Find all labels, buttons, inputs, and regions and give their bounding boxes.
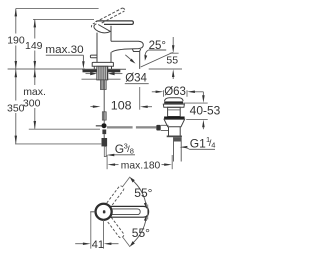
rod end cap [156,125,160,131]
tailpipe thread hatch [174,137,182,141]
hose braided segment [102,112,106,120]
extension line lever top (149) [33,18,94,20]
arrow down 149 at deck [34,61,37,69]
pivot dashed arc [91,23,95,28]
svg-text:Ø34: Ø34 [125,73,147,85]
svg-text:Ø63: Ø63 [164,86,186,98]
pop-up rod pivot ball [102,123,107,128]
svg-text:8: 8 [130,146,134,155]
tailpipe [174,137,182,161]
dim 55 upper arrow [172,37,174,47]
svg-text:300: 300 [23,97,41,109]
lever pivot skirt right side [98,25,110,32]
arrow down 350 bottom [15,136,17,144]
plan lever solid [110,206,148,217]
svg-text:55°: 55° [132,226,150,240]
dim 41 ticks [90,212,92,249]
aerator [132,49,140,52]
lever pivot skirt bottom [94,24,111,33]
svg-text:55: 55 [166,54,178,66]
arrow up 350 at deck [15,69,17,77]
ext line spout outlet right [170,52,179,54]
swing arc top [132,180,147,207]
stream vertical line [139,52,141,69]
shank threads below deck [100,80,106,90]
ext line basin floor [183,102,208,104]
rod lever arm left of ball [96,125,102,127]
dim 41 left arrow [75,243,84,245]
arrow up max300 at deck [34,69,37,77]
dim 108 right arrow [143,106,152,108]
hose nipple [104,146,106,156]
dim 108 right tick [139,87,141,110]
ext line nut bottom [186,118,208,120]
shank threads above deck [97,66,108,80]
dim 40-53 upper arrow [202,92,204,97]
plan lever dashed down 55 [107,217,125,238]
faucet base plate [92,62,113,66]
radial extension top [123,177,130,186]
drain flange [163,104,184,107]
drain plug dark band [164,101,183,103]
dim 40-53 lower arrow [202,126,204,129]
dim Ø63 ticks [163,90,165,97]
hose lower line [103,134,105,138]
dimension line 149/max300 vertical [34,19,36,128]
svg-text:4: 4 [211,140,215,149]
deck section dark band right [108,70,121,73]
svg-text:41: 41 [92,239,104,251]
svg-text:G1: G1 [190,137,206,151]
arrow up 190 top [15,8,17,16]
plan center pin [103,210,106,213]
drain body [169,127,181,136]
stream left arrow [125,55,131,60]
dim Ø63 right arrow [193,91,203,93]
radial extension bottom [123,238,130,247]
supply hose line [103,89,105,112]
lever tip tick [147,205,149,220]
deck extension line left [8,68,85,70]
dim 41 right arrow [110,243,119,245]
svg-text:max.180: max.180 [121,160,161,172]
drain neck [168,107,181,116]
hose thin line [103,120,105,123]
drain plug dome [165,98,184,101]
deck section dark band left [83,70,97,73]
extension line top (raised lever height 190) [16,7,99,9]
dim 55 lower arrow [172,76,174,79]
deck extension line right [149,68,182,70]
drain neck seam line [168,109,181,111]
plan circle (cartridge) [96,204,112,220]
spout [111,41,143,52]
faucet body [97,26,111,63]
arrow down 190 at deck [15,61,17,69]
deck bottom line [82,78,121,80]
pop-up pull knob on body back [90,55,97,58]
svg-text:190: 190 [7,34,25,46]
plan lever slot [112,209,140,215]
extension line hose end (350 bottom) [15,143,101,145]
stream diagonal 25deg [141,52,173,67]
lever handle solid [96,21,134,25]
pop-up rod segments [107,126,133,128]
svg-text:55°: 55° [134,186,152,200]
dim 108 left arrow [90,106,96,108]
svg-text:108: 108 [111,101,132,113]
drain bottom plate [167,136,182,138]
arrow down max300 bottom [34,121,37,129]
deck top line [82,68,126,70]
dim Ø63 left arrow [152,91,157,93]
dim max180 ticks and arrows [106,155,108,169]
arrow up 149 top [34,19,37,27]
rod port lines [161,125,169,130]
lever handle raised dashed [100,8,125,23]
hose connector below ball [102,130,106,135]
dimension line 190/350 vertical [15,8,17,143]
swing arc bottom [132,217,147,244]
drain nut body [164,119,185,126]
extension line rod level (max300 bottom) [29,128,100,130]
plan lever dashed up 55 [107,185,125,206]
svg-text:40-53: 40-53 [190,106,221,118]
svg-text:max.30: max.30 [45,44,83,56]
hose end fitting [102,138,108,146]
dim arrows hole Ø34 [86,73,92,75]
svg-text:149: 149 [25,40,43,52]
drain nut dark band [164,117,185,120]
plan stub left [90,211,95,213]
faucet base step [94,66,111,69]
